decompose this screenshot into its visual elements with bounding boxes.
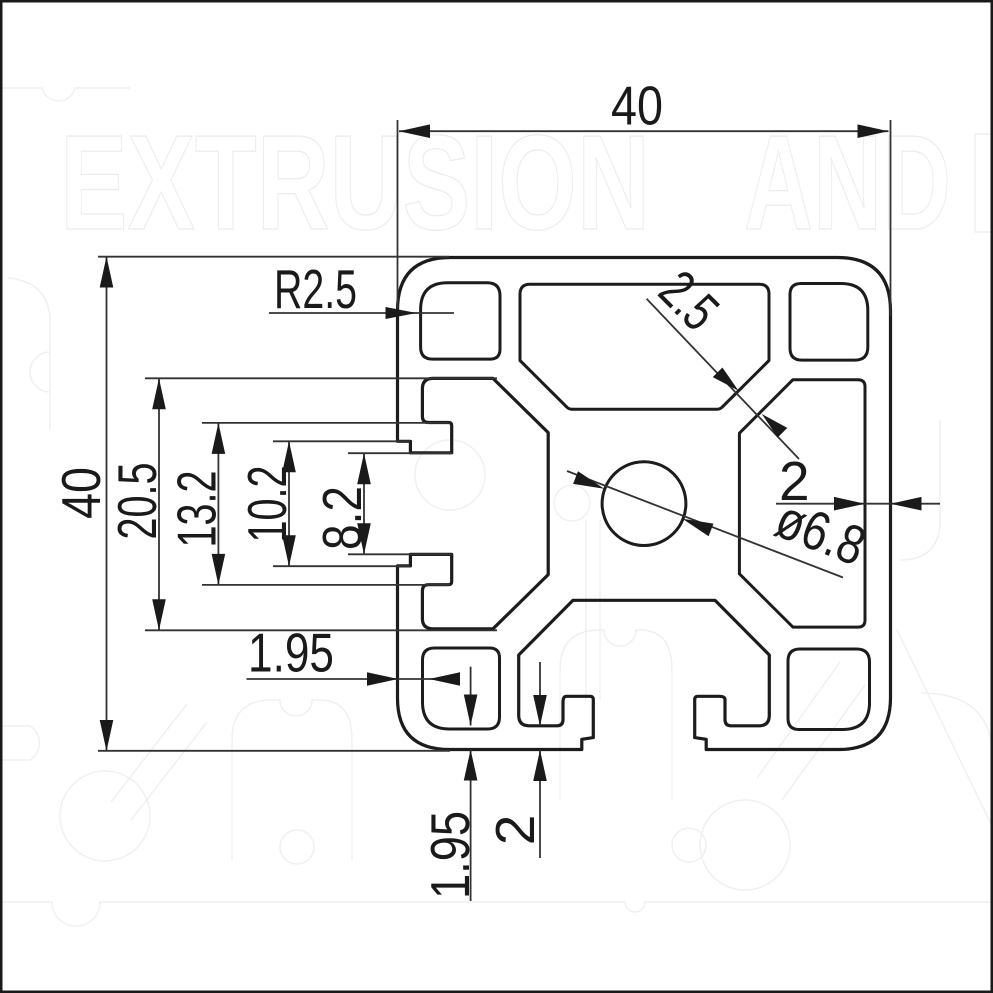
svg-text:13.2: 13.2 bbox=[166, 471, 228, 548]
svg-text:40: 40 bbox=[611, 75, 663, 137]
arrow 20.5 down bbox=[152, 599, 166, 630]
center bore hole dia 6.8 bbox=[602, 462, 686, 546]
arrow 1.95 middle right bbox=[429, 672, 460, 686]
profile outer boundary with left T-slot and bottom T-slot bbox=[398, 258, 891, 750]
arrow 2.5 lower bbox=[762, 414, 788, 438]
arrow 20.5 up bbox=[152, 378, 166, 409]
leader line R2.5 bbox=[269, 312, 454, 314]
arrow 10.2 up bbox=[282, 441, 296, 472]
arrow 2 right inner bbox=[834, 497, 865, 511]
watermark top-left notch line bbox=[0, 88, 130, 101]
arrow 40 left down bbox=[100, 720, 114, 751]
arrow 40 top right bbox=[858, 124, 889, 138]
dimension shaft 1.95 bottom lower bbox=[470, 750, 472, 902]
arrow 1.95 middle left bbox=[367, 672, 398, 686]
watermark right-edge bracket low bbox=[921, 693, 993, 760]
extension line 40 top right vertical bbox=[890, 120, 892, 316]
dimension line 40 left bbox=[106, 257, 108, 752]
extension line 20.5 bottom bbox=[145, 629, 497, 631]
corner screw channel top-right bbox=[790, 284, 868, 361]
svg-text:1.95: 1.95 bbox=[248, 622, 334, 684]
svg-text:40: 40 bbox=[50, 467, 112, 519]
svg-text:8.2: 8.2 bbox=[311, 486, 373, 550]
watermark profile icon center bbox=[560, 630, 672, 800]
extension line 8.2 bottom bbox=[348, 553, 452, 555]
watermark small circle left bbox=[280, 830, 314, 864]
arrow 8.2 up bbox=[357, 453, 371, 484]
svg-text:AND: AND bbox=[744, 107, 951, 258]
watermark diagonal strokes bottom-right bbox=[757, 630, 993, 828]
watermark right-edge bracket mid bbox=[900, 420, 940, 560]
arrow 13.2 down bbox=[212, 554, 226, 585]
dimension line 20.5 bbox=[158, 378, 160, 630]
arrow dia6.8 upper-left bbox=[573, 471, 604, 489]
arrow 40 left up bbox=[100, 257, 114, 288]
arrow dia6.8 lower-right bbox=[682, 519, 713, 537]
extension line 40 top left vertical bbox=[397, 120, 399, 313]
arrow 2 bottom down bbox=[533, 695, 547, 726]
watermark circle center bbox=[554, 485, 590, 521]
dimension line 40 top bbox=[399, 130, 889, 132]
svg-text:EXTRUSION: EXTRUSION bbox=[60, 107, 650, 258]
watermark left-edge slot bite bbox=[0, 726, 39, 760]
extension line top face bbox=[98, 256, 449, 258]
watermark small circle right bbox=[672, 828, 706, 862]
watermark profile icon left bbox=[232, 700, 352, 860]
svg-text:20.5: 20.5 bbox=[106, 463, 168, 540]
dimension line 10.2 bbox=[288, 441, 290, 566]
arrow 1.95 bottom down bbox=[464, 695, 478, 726]
dimension shaft 2 bottom lower bbox=[539, 750, 541, 858]
arrow 13.2 up bbox=[212, 423, 226, 454]
svg-text:2: 2 bbox=[484, 815, 546, 846]
corner screw channel bottom-left bbox=[423, 648, 500, 729]
dimension shaft 2 bottom upper bbox=[539, 662, 541, 726]
svg-text:10.2: 10.2 bbox=[236, 466, 298, 543]
watermark left-edge notch bbox=[30, 352, 50, 392]
watermark vertical bars center bbox=[586, 520, 600, 700]
watermark circle bottom-right bbox=[700, 800, 790, 890]
right closed-slot cavity bbox=[739, 380, 865, 627]
arrow R2.5 bbox=[386, 307, 417, 319]
extension line bottom face bbox=[98, 750, 450, 752]
arrow 10.2 down bbox=[282, 535, 296, 566]
watermark diagonal strokes bottom-left bbox=[111, 704, 207, 820]
watermark circle center-left bbox=[415, 440, 485, 510]
arrow 40 top left bbox=[399, 124, 430, 138]
arrow 2 bottom up bbox=[533, 750, 547, 781]
watermark letter bar right edge bbox=[975, 134, 993, 232]
extension line 10.2 bottom bbox=[273, 565, 410, 567]
dimension line 13.2 bbox=[217, 423, 219, 585]
svg-text:R2.5: R2.5 bbox=[274, 258, 357, 320]
watermark circle bottom-left bbox=[60, 771, 150, 861]
watermark bottom rule with notches bbox=[0, 902, 993, 926]
arrow 8.2 down bbox=[357, 523, 371, 554]
svg-text:1.95: 1.95 bbox=[419, 811, 481, 899]
watermark left-edge bracket bbox=[8, 278, 50, 430]
dimension shaft 1.95 bottom upper bbox=[470, 667, 472, 726]
dimension line 1.95 middle bbox=[247, 678, 457, 680]
dimension line 8.2 bbox=[363, 453, 365, 554]
leader line dia 6.8 bbox=[567, 471, 843, 578]
dimension line 2 right bbox=[776, 503, 940, 505]
arrow 1.95 bottom up bbox=[464, 750, 478, 781]
leader line 2.5 diagonal bbox=[647, 299, 799, 459]
arrow 2 right outer bbox=[891, 497, 922, 511]
corner screw channel top-left bbox=[421, 283, 500, 359]
extension line 13.2 bottom bbox=[202, 584, 450, 586]
corner screw channel bottom-right bbox=[788, 649, 870, 730]
arrow 2.5 upper bbox=[713, 368, 739, 391]
extension line 8.2 top bbox=[348, 452, 452, 454]
extension line 13.2 top bbox=[202, 422, 450, 424]
extension line 10.2 top bbox=[273, 440, 410, 442]
top closed-slot cavity bbox=[520, 284, 769, 409]
extension line 20.5 top bbox=[145, 377, 497, 379]
